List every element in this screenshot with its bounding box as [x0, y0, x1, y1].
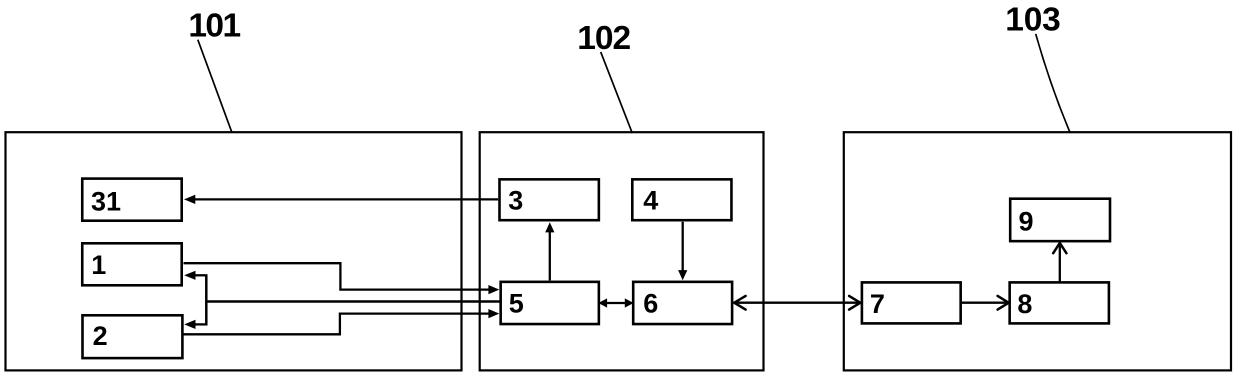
svg-text:101: 101 — [188, 7, 240, 44]
svg-text:8: 8 — [1017, 289, 1032, 319]
svg-text:5: 5 — [509, 289, 524, 319]
svg-text:7: 7 — [870, 289, 885, 319]
svg-text:31: 31 — [91, 186, 121, 216]
svg-text:1: 1 — [91, 250, 106, 280]
svg-text:9: 9 — [1019, 206, 1034, 236]
svg-text:3: 3 — [508, 186, 523, 216]
svg-text:103: 103 — [1005, 1, 1060, 38]
svg-text:4: 4 — [643, 186, 658, 216]
svg-text:2: 2 — [93, 321, 108, 351]
svg-text:102: 102 — [577, 20, 630, 57]
svg-text:6: 6 — [643, 289, 658, 319]
